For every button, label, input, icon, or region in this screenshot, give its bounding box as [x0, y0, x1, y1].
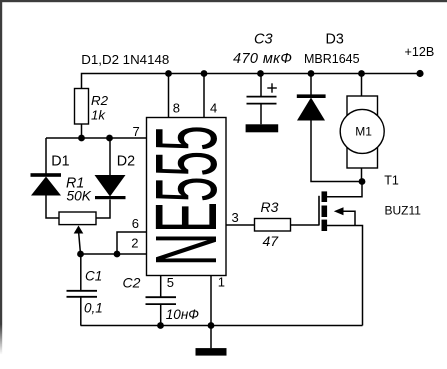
svg-text:R3: R3: [261, 199, 279, 215]
svg-text:C3: C3: [254, 32, 273, 48]
svg-text:D1,D2 1N4148: D1,D2 1N4148: [81, 52, 169, 67]
svg-text:M1: M1: [355, 125, 372, 139]
svg-text:10нФ: 10нФ: [166, 307, 199, 322]
svg-text:8: 8: [173, 101, 180, 116]
svg-text:1k: 1k: [91, 108, 106, 123]
svg-text:D2: D2: [117, 154, 135, 170]
svg-text:D3: D3: [326, 32, 344, 48]
svg-text:MBR1645: MBR1645: [304, 52, 360, 66]
svg-text:470 мкФ: 470 мкФ: [233, 51, 292, 67]
svg-text:NE555: NE555: [137, 125, 235, 266]
svg-text:D1: D1: [51, 154, 69, 170]
svg-text:0,1: 0,1: [84, 301, 103, 316]
svg-text:C2: C2: [123, 275, 141, 291]
svg-text:50K: 50K: [67, 189, 92, 204]
svg-text:5: 5: [167, 275, 174, 290]
svg-text:47: 47: [263, 233, 280, 249]
svg-text:1: 1: [218, 275, 225, 290]
svg-text:T1: T1: [384, 174, 399, 188]
svg-text:R2: R2: [91, 93, 109, 108]
svg-text:C1: C1: [85, 269, 102, 284]
svg-text:4: 4: [210, 101, 217, 116]
svg-text:+12В: +12В: [405, 45, 435, 59]
svg-text:BUZ11: BUZ11: [385, 204, 422, 218]
